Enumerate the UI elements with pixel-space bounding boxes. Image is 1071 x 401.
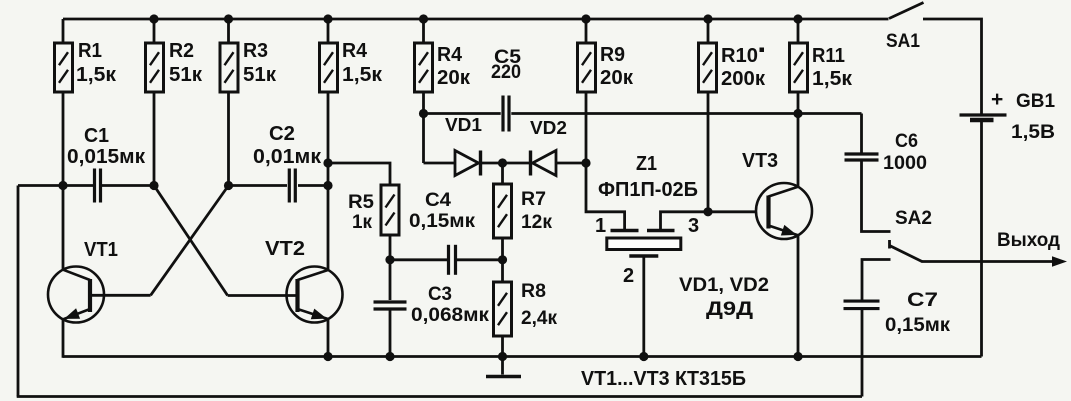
node [498,352,507,361]
wire R7-R8 link [501,238,504,282]
svg-text:2,4к: 2,4к [521,308,557,329]
svg-text:1,5к: 1,5к [76,64,117,86]
wire C2 left lead [229,184,288,187]
svg-text:Z1: Z1 [636,153,657,175]
note VT1-VT3 type [581,368,746,390]
wire cross-coupling diagonal to VT1 [151,186,229,296]
wire R8 bottom lead [501,336,504,357]
wire R11 bottom lead [797,92,800,114]
wire Z1 pin 1 path [586,163,625,229]
svg-text:VT3: VT3 [742,150,778,172]
node [703,207,712,216]
svg-text:3: 3 [688,215,699,237]
svg-text:0,15мк: 0,15мк [409,211,476,232]
node [581,158,590,167]
resistor R2 [146,40,204,92]
wire outer feedback loop left [17,186,20,397]
node [149,14,158,23]
wire VT2 collector lead [327,186,330,271]
node [498,255,507,264]
wire R2 top lead [153,19,156,43]
svg-text:R1: R1 [78,40,102,62]
node [385,352,394,361]
svg-text:0,015мк: 0,015мк [67,146,146,168]
wire VT1 base lead [90,294,151,297]
wire R2 bottom lead [153,92,156,186]
wire R1 top lead [62,19,65,43]
svg-text:0,15мк: 0,15мк [885,315,951,336]
svg-text:20к: 20к [600,67,634,89]
svg-text:VD1: VD1 [445,115,482,135]
svg-text:0,01мк: 0,01мк [253,146,322,168]
resistor R1 [55,40,118,92]
svg-text:51к: 51к [169,64,203,86]
svg-text:20к: 20к [437,67,471,89]
capacitor C7 [844,290,951,336]
svg-text:1,5к: 1,5к [342,64,383,86]
svg-text:SA2: SA2 [895,208,932,229]
wire VD1 anode lead [424,162,456,165]
wire R11 top lead [797,19,800,43]
wire output line [922,260,1063,263]
wire C4 right lead [457,258,503,261]
svg-text:C1: C1 [84,125,109,147]
node [793,352,802,361]
svg-text:12к: 12к [521,212,552,233]
ground [486,357,521,377]
svg-text:C3: C3 [428,284,452,305]
svg-text:R5: R5 [348,192,374,213]
resistor R11 [790,43,854,92]
wire bottom common rail [63,355,982,358]
wire R5 to C4 node [389,235,392,260]
wire R9 top lead [585,19,588,43]
capacitor C4 [409,190,476,275]
wire VT2 base lead [228,294,298,297]
note VD1 VD2 type [679,275,769,320]
wire VT3 emitter lead [797,235,800,357]
wire top supply rail [63,18,889,21]
svg-text:R3: R3 [243,40,268,62]
wire C3 top lead [389,260,392,300]
wire top rail right segment [923,19,982,114]
svg-text:C4: C4 [425,190,451,211]
wire R4-20k top lead [422,19,425,43]
node [385,255,394,264]
svg-text:VT1...VT3 КT315Б: VT1...VT3 КT315Б [581,368,746,390]
diode VD2 [530,118,567,176]
svg-text:R10: R10 [721,45,758,67]
resistor R10 [699,43,766,92]
wire C6 top lead [860,114,863,155]
svg-text:Д9Д: Д9Д [706,299,754,320]
node [581,14,590,23]
node [793,109,802,118]
wire battery negative lead [980,122,983,357]
svg-text:+: + [991,88,1003,111]
node [498,158,507,167]
resistor R8 [494,281,558,336]
resistor R9 [578,43,635,92]
wire VT3 collector lead [797,114,800,188]
node [639,352,648,361]
svg-text:R7: R7 [521,189,546,210]
wire C3 bottom lead [389,311,392,357]
wire R10 top lead [707,19,710,43]
resistor R3 [220,40,277,92]
wire C7 lower lead [861,310,864,397]
svg-text:1к: 1к [352,212,372,233]
wire R4 bottom lead [327,92,330,186]
wire C1 right lead [102,184,154,187]
transistor VT3 [742,150,812,239]
node [58,181,67,190]
wire outer feedback loop bottom [17,395,862,398]
wire R3 top lead [227,19,230,43]
wire R9 bottom lead [585,92,588,163]
wire R4 top lead [327,19,330,43]
svg-text:ФП1П-02Б: ФП1П-02Б [598,179,698,201]
wire cross-coupling diagonal to VT2 [154,186,228,296]
svg-text:R4: R4 [342,40,368,62]
capacitor C5 [491,47,521,132]
wire C1 left lead [18,184,93,187]
svg-text:VT1: VT1 [84,239,118,261]
resistor R7 [494,184,553,238]
wire VT2 emitter lead [327,319,330,357]
capacitor C2 [253,123,322,203]
svg-text:R2: R2 [169,40,194,62]
wire C2 right lead [298,184,328,187]
capacitor C1 [67,125,146,203]
pin 1 label [595,215,606,237]
svg-text:1,5к: 1,5к [812,68,853,90]
svg-text:1,5В: 1,5В [1011,122,1055,143]
switch SA2 [890,208,933,262]
piezo filter Z1 [598,153,698,256]
node [323,158,332,167]
resistor R4 [320,40,384,92]
node [224,14,233,23]
capacitor C6 [845,131,928,174]
node [419,109,428,118]
svg-text:VD1, VD2: VD1, VD2 [679,275,769,296]
wire C5 left lead [424,112,501,115]
wire C4 left lead [390,258,447,261]
battery GB1 [960,88,1056,143]
diode VD1 [445,115,482,176]
wire VD2 anode lead [555,162,586,165]
node [703,14,712,23]
svg-text:1000: 1000 [883,153,927,174]
svg-text:SA1: SA1 [886,31,920,52]
svg-text:200к: 200к [721,68,766,90]
wire SA2 lower contact [862,260,891,301]
svg-text:R8: R8 [521,281,546,302]
pin 2 label [623,265,634,287]
svg-text:2: 2 [623,265,634,287]
svg-text:R9: R9 [600,44,625,66]
wire Z1 pin 2 lead [642,258,645,357]
capacitor C3 [374,284,490,326]
pin 3 label [688,215,699,237]
svg-text:C6: C6 [895,131,918,152]
svg-text:1: 1 [595,215,606,237]
wire R10 bottom lead [707,92,710,212]
svg-text:C2: C2 [269,123,295,145]
svg-text:220: 220 [491,62,521,83]
wire VD1-VD2 middle [479,162,532,165]
node [224,181,233,190]
transistor VT2 [265,238,343,323]
svg-text:C7: C7 [907,290,938,311]
node [793,14,802,23]
resistor R4 20k [415,43,472,92]
node [323,352,332,361]
wire R4-20k bottom lead [422,92,425,114]
wire R1 bottom lead [62,92,65,186]
wire R7 top lead [501,163,504,184]
output arrow [997,230,1067,267]
svg-text:R4: R4 [437,44,463,66]
svg-text:VD2: VD2 [530,118,567,138]
wire to diode row [422,114,425,164]
svg-text:VT2: VT2 [265,238,305,260]
wire C6 bottom lead [862,160,891,232]
wire C5 right run [511,112,861,115]
wire Z1 pin 3 path [661,212,758,230]
wire VT1 collector lead [62,186,65,271]
resistor R5 [348,185,399,235]
wire VT1 emitter lead [62,319,65,358]
svg-text:0,068мк: 0,068мк [411,305,490,326]
svg-text:R11: R11 [812,45,845,67]
switch SA1 [886,3,924,53]
transistor VT1 [48,239,118,323]
node [149,181,158,190]
node [323,14,332,23]
node [323,181,332,190]
node [419,14,428,23]
svg-text:Выход: Выход [997,230,1060,251]
svg-text:GB1: GB1 [1016,91,1055,112]
svg-text:51к: 51к [243,64,277,86]
wire R3 bottom lead [227,92,230,186]
wire R5 tap [328,163,390,185]
